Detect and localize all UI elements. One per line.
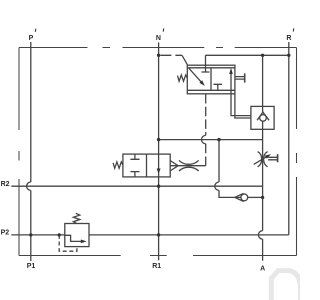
valve V2 pilot arrowhead xyxy=(170,160,178,171)
junction dot N pilot xyxy=(157,54,160,57)
valve V1 diagonal path xyxy=(189,68,203,84)
watermark xyxy=(271,271,300,300)
wire R2 rail xyxy=(11,185,262,187)
junction dot relief pilot xyxy=(58,233,61,236)
adjustable throttle arcs xyxy=(258,152,268,167)
relief valve internal path xyxy=(65,235,81,241)
enclosure frame left xyxy=(18,48,20,256)
junction dot check A xyxy=(261,196,264,199)
check valve CV1 seat xyxy=(257,112,269,120)
arrowhead V1 diagonal xyxy=(199,80,204,86)
svg-text:P: P xyxy=(29,35,34,42)
svg-text:R2: R2 xyxy=(1,181,10,188)
tick N xyxy=(162,29,165,32)
pilot dashed vertical lower xyxy=(205,144,207,166)
valve V1 plunger actuator xyxy=(235,77,244,80)
relief valve pilot dashed xyxy=(59,235,77,251)
pilot dashed vertical from V1 to throttle line xyxy=(205,94,207,135)
restrictor arcs xyxy=(179,160,199,171)
valve V1 right edge down to check valve xyxy=(235,94,251,118)
valve V1 divider xyxy=(210,68,212,91)
valve V1 spring xyxy=(178,75,188,81)
arrowhead V2 down arrow xyxy=(157,169,161,174)
svg-text:N: N xyxy=(156,35,161,42)
pilot slant into valve V1 xyxy=(182,55,188,65)
svg-text:R1: R1 xyxy=(152,263,161,270)
relief valve RV box xyxy=(65,224,89,247)
wire check line right portion xyxy=(248,196,263,198)
wire hop A over P2 rail xyxy=(258,231,262,239)
enclosure frame bottom xyxy=(19,255,297,257)
pilot hop over y139.6 xyxy=(201,135,205,143)
valve V2 blocked T bottom xyxy=(130,172,139,177)
wire hop x219 over R2 xyxy=(215,182,219,190)
check valve CV1 ball xyxy=(260,115,267,122)
arrowhead adjustable throttle xyxy=(265,154,271,159)
enclosure frame right xyxy=(296,48,298,256)
enclosure frame top (dash-dot) xyxy=(19,47,297,49)
adjustable throttle arrow line xyxy=(254,156,268,164)
valve V2 blocked T top xyxy=(130,154,139,159)
wire A vertical upper xyxy=(262,55,264,112)
valve V1 top port stub xyxy=(202,55,210,72)
wire P vertical xyxy=(30,42,32,182)
pilot line dashed from N xyxy=(160,54,182,56)
tick P xyxy=(34,29,37,32)
valve V2 spring xyxy=(113,162,123,168)
wire A vertical lower xyxy=(262,239,264,261)
junction dot A top xyxy=(261,54,264,57)
wire R vertical and return to P2 rail xyxy=(288,42,290,235)
wire x219 down to check line xyxy=(219,190,241,197)
valve V1 right cell arrow shaft and line to check valve xyxy=(231,74,251,116)
junction dot N R2 xyxy=(157,185,160,188)
wire branch y139.6 xyxy=(159,139,263,141)
wire pilot rail y55 xyxy=(206,54,289,56)
valve V2 divider xyxy=(146,154,148,177)
junction dot x219 xyxy=(217,138,220,141)
junction dot N branch xyxy=(157,138,160,141)
svg-text:P2: P2 xyxy=(1,230,10,237)
wire N vertical (N to R1) xyxy=(158,42,160,260)
tick R xyxy=(292,28,295,31)
arrowhead relief valve xyxy=(81,240,87,244)
inline check valve CV2 seat xyxy=(235,193,244,201)
valve V1 outer rect xyxy=(187,65,235,94)
adjustable throttle rod xyxy=(268,157,277,160)
throttle line to valve V2 pilot xyxy=(170,165,205,167)
junction dot N P2 xyxy=(157,233,160,236)
valve V2 body xyxy=(123,154,170,177)
junction dot P P2 xyxy=(29,233,32,236)
svg-text:P1: P1 xyxy=(27,263,36,270)
wire P2 rail right of relief valve xyxy=(89,234,289,236)
valve V1 inner edges xyxy=(187,68,235,91)
wire vertical x219 xyxy=(218,140,220,182)
valve V1 bottom blocked port T xyxy=(214,84,223,90)
relief valve spring xyxy=(73,213,79,223)
wire A vertical mid xyxy=(262,121,264,231)
arrowhead V1 up arrow xyxy=(229,68,233,74)
inline check valve CV2 ball xyxy=(241,194,248,201)
wire P vertical lower to P1 xyxy=(30,190,32,261)
check valve CV1 box xyxy=(251,106,274,129)
svg-text:A: A xyxy=(260,265,265,272)
svg-text:R: R xyxy=(286,35,291,42)
wire hop P over R2 xyxy=(27,182,31,190)
wire P2 rail left xyxy=(11,234,65,236)
junction dot R top xyxy=(287,54,290,57)
